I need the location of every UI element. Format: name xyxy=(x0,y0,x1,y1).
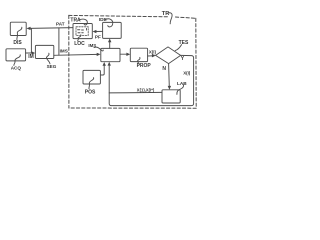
diamond TES xyxy=(156,47,181,64)
svg-text:X(1),X(i*): X(1),X(i*) xyxy=(137,87,155,92)
wire central box right to PROP xyxy=(120,53,127,55)
arrowhead into DIS xyxy=(26,27,30,30)
box DIS xyxy=(10,22,26,35)
svg-text:X(i): X(i) xyxy=(183,70,191,75)
leader for TR crossing border xyxy=(168,13,172,24)
svg-text:ACQ: ACQ xyxy=(11,66,22,71)
leader DIS xyxy=(17,27,22,39)
wire IM arrow ACQ to SEG xyxy=(26,52,33,54)
wire POS up into central box xyxy=(100,65,104,75)
wire PROP to diamond with label X(i) xyxy=(148,55,153,57)
leader TES xyxy=(175,45,181,51)
box IDE xyxy=(103,22,122,38)
inner dashed pattern of LOC xyxy=(76,27,88,36)
svg-text:TES: TES xyxy=(179,40,189,46)
box central (selector) xyxy=(101,48,120,61)
leader POS xyxy=(89,78,94,89)
svg-text:N: N xyxy=(162,66,166,72)
arrowhead POS into central box bottom xyxy=(103,62,106,66)
arrowhead into PROP xyxy=(126,53,130,56)
svg-text:PF: PF xyxy=(95,34,101,39)
arrowhead into SEG xyxy=(32,51,36,54)
dashed enclosure TR xyxy=(69,15,196,108)
leader IDE hooking into box xyxy=(105,19,112,27)
wire PF from IDE to LOC xyxy=(96,30,103,32)
leader LOC xyxy=(78,35,81,41)
box PROP xyxy=(130,48,147,61)
leader TRA xyxy=(79,19,87,25)
box LOC xyxy=(73,24,92,39)
svg-text:X(i): X(i) xyxy=(149,49,157,54)
svg-text:DIS: DIS xyxy=(13,40,22,46)
wire IMS from SEG to RES box xyxy=(54,53,98,56)
svg-text:TRA: TRA xyxy=(70,18,81,24)
wire drop from PAT line down to IMS line xyxy=(58,28,60,55)
box SEG xyxy=(35,45,53,58)
wire N branch from diamond down to LAB xyxy=(168,64,171,87)
svg-text:LAB: LAB xyxy=(177,81,187,86)
leader LAB into box xyxy=(177,85,184,95)
arrowhead feedback into central box bottom xyxy=(108,62,111,66)
svg-text:TR: TR xyxy=(162,11,169,17)
leader ACQ xyxy=(14,55,20,66)
svg-text:IM: IM xyxy=(28,54,34,60)
svg-text:IMS: IMS xyxy=(60,48,68,53)
box ACQ xyxy=(6,49,26,61)
arrowhead into diamond xyxy=(152,54,156,57)
arrowhead into LAB top xyxy=(168,86,171,90)
svg-text:PAT: PAT xyxy=(56,22,65,27)
svg-text:POS: POS xyxy=(85,90,96,96)
svg-text:SEG: SEG xyxy=(47,64,57,69)
arrowhead into IDE bottom xyxy=(108,38,111,42)
wire drop from PAT line down to IM line xyxy=(30,29,32,53)
wire X(1),X(i*) from LAB left to feedback line xyxy=(109,91,162,94)
leader PROP xyxy=(137,57,140,64)
arrowhead into central box xyxy=(97,53,101,56)
arrowhead into LOC xyxy=(93,30,97,33)
svg-text:PROP: PROP xyxy=(137,63,152,69)
leader SEG xyxy=(46,53,50,64)
box LAB xyxy=(162,90,180,103)
wire central box up to IDE xyxy=(109,41,111,48)
wire Y branch loop right and down and back left xyxy=(109,55,193,105)
leader IMS to central box corner xyxy=(94,47,103,51)
wire PAT from LOC to DIS xyxy=(30,27,73,30)
svg-text:LOC: LOC xyxy=(74,41,85,47)
box POS xyxy=(83,70,100,84)
